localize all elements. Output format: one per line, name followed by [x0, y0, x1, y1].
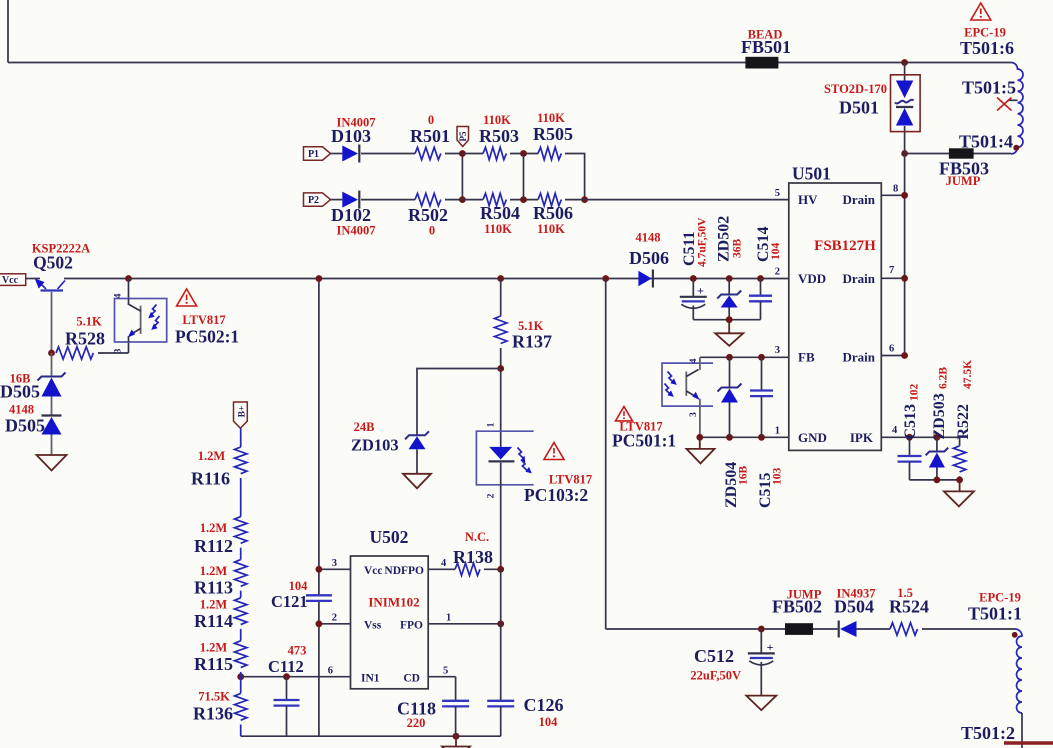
- svg-text:2: 2: [775, 267, 780, 278]
- resistor R506: [538, 193, 561, 205]
- IC U501 FSB127H body: [789, 183, 882, 450]
- svg-text:ZD505: ZD505: [0, 382, 40, 402]
- svg-text:EPC-19: EPC-19: [979, 591, 1021, 605]
- wire R116-R112: [240, 478, 242, 517]
- svg-text:IN1: IN1: [361, 673, 380, 685]
- warning triangle PC501: [616, 407, 633, 421]
- junction rail / R522: [956, 477, 963, 484]
- svg-text:Q502: Q502: [33, 253, 73, 273]
- svg-text:4.7uF,50V: 4.7uF,50V: [697, 217, 709, 267]
- resistor R138 N.C.: [455, 563, 480, 575]
- wire CD-C118: [455, 677, 457, 701]
- diode D505 4148: [42, 414, 62, 416]
- svg-text:Vcc: Vcc: [2, 275, 19, 286]
- wire R114-R115: [240, 629, 242, 641]
- wire pin1 FPO: [428, 623, 501, 625]
- svg-text:1: 1: [775, 426, 780, 437]
- svg-text:D102: D102: [331, 205, 371, 225]
- ground bottom (clipped): [442, 747, 470, 748]
- svg-text:22uF,50V: 22uF,50V: [690, 669, 741, 683]
- wire R136-bottom rail: [240, 725, 242, 737]
- junction GND / C515: [758, 434, 765, 441]
- svg-text:4: 4: [441, 558, 447, 569]
- svg-text:R113: R113: [194, 578, 233, 598]
- PC103 LED: [489, 447, 512, 460]
- diode D506 4148: [638, 271, 651, 286]
- svg-text:R114: R114: [194, 611, 233, 631]
- junction FB / ZD504: [726, 354, 733, 361]
- junction IPK / ZD503: [934, 434, 941, 441]
- wire ground stub bottom: [455, 736, 457, 746]
- svg-text:C121: C121: [271, 592, 308, 611]
- junction group rail / ground: [726, 316, 733, 323]
- svg-text:110K: 110K: [484, 222, 512, 236]
- svg-text:R505: R505: [533, 124, 573, 144]
- svg-text:HV: HV: [798, 192, 818, 207]
- wire VDD group bottom rail: [693, 319, 760, 321]
- PC502 phototransistor: [140, 306, 142, 334]
- zener diode ZD505 16B: [38, 373, 66, 381]
- resistor R114 1.2M: [235, 598, 247, 625]
- svg-text:D103: D103: [331, 126, 371, 146]
- svg-text:1.2M: 1.2M: [200, 564, 228, 578]
- junction rail / ZD503: [934, 477, 941, 484]
- capacitor C112 473: [286, 677, 288, 700]
- resistor R505: [538, 147, 561, 159]
- wire ground stub: [699, 437, 701, 449]
- capacitor C511 4.7uF,50V electrolytic: [692, 279, 694, 297]
- wire bottom rail: [241, 735, 501, 737]
- junction IPK / C513: [906, 434, 913, 441]
- svg-text:R115: R115: [194, 654, 233, 674]
- port Vcc: [0, 274, 26, 286]
- wire to U501 pin5 HV: [585, 199, 789, 201]
- wire PC502 pin3 riser: [128, 342, 130, 353]
- svg-text:R502: R502: [408, 205, 448, 225]
- warning triangle PC103: [544, 443, 564, 460]
- resistor R112 1.2M: [235, 517, 247, 544]
- svg-text:+: +: [697, 284, 704, 298]
- svg-text:103: 103: [772, 468, 784, 486]
- wire R501-node: [445, 153, 462, 155]
- svg-text:4148: 4148: [9, 403, 34, 417]
- svg-text:P1: P1: [308, 149, 319, 160]
- svg-text:Drain: Drain: [843, 192, 876, 207]
- junction R501/R503/P5: [459, 150, 466, 157]
- capacitor C513 102: [909, 437, 911, 456]
- junction top rail / D501: [901, 59, 908, 66]
- wire FB rail: [700, 356, 789, 358]
- wire P2-D102: [331, 199, 343, 201]
- svg-text:T501:2: T501:2: [961, 723, 1015, 743]
- wire GND rail: [700, 436, 789, 438]
- junction feeder / C512: [758, 626, 765, 633]
- svg-text:1.2M: 1.2M: [200, 598, 228, 612]
- svg-text:1.2M: 1.2M: [200, 641, 228, 655]
- wire D102-R502: [361, 199, 415, 201]
- wire R524-T501:1: [922, 628, 1015, 630]
- svg-text:R137: R137: [512, 332, 552, 352]
- capacitor C515 103: [761, 357, 763, 390]
- svg-text:6: 6: [328, 666, 333, 677]
- svg-text:1.2M: 1.2M: [198, 449, 226, 463]
- junction bottom rail / ground: [453, 733, 460, 740]
- wire pin4 NDFPO: [428, 568, 455, 570]
- wire IPK group bottom rail: [910, 479, 960, 481]
- svg-text:ZD502: ZD502: [716, 216, 733, 262]
- capacitor C118 220: [442, 700, 469, 702]
- wire Q502 base down: [51, 292, 53, 353]
- svg-text:R506: R506: [533, 203, 573, 223]
- wire top rail: [8, 62, 1011, 64]
- wire R112-R113: [240, 548, 242, 560]
- svg-text:473: 473: [288, 644, 307, 658]
- PC501 phototransistor: [685, 372, 687, 396]
- svg-text:PC502:1: PC502:1: [175, 327, 239, 347]
- svg-text:0: 0: [428, 113, 434, 127]
- svg-text:24B: 24B: [354, 420, 375, 434]
- svg-text:IN4007: IN4007: [337, 224, 376, 238]
- capacitor C126 104: [487, 700, 514, 702]
- wire ground stub: [959, 480, 961, 492]
- diode D504 IN4937: [838, 621, 840, 638]
- transformer T501 primary winding pins 6-5-4: [1011, 63, 1023, 154]
- svg-text:1.2M: 1.2M: [200, 521, 228, 535]
- svg-text:110K: 110K: [537, 111, 565, 125]
- wire ZD505-D505: [51, 397, 53, 416]
- resistor R522 47.5K: [959, 437, 961, 446]
- warning triangle PC502: [177, 289, 197, 306]
- zener diode ZD103 24B: [405, 431, 429, 439]
- resistor R503: [483, 147, 506, 159]
- optocoupler PC502:1 box: [115, 299, 167, 343]
- junction VDD / FB502 feeder: [602, 275, 609, 282]
- svg-text:PC501:1: PC501:1: [612, 431, 676, 451]
- svg-text:N.C.: N.C.: [465, 530, 489, 544]
- junction VDD riser: [316, 275, 323, 282]
- IC U502 INIM102 body: [351, 556, 429, 689]
- zener diode ZD502 36B: [728, 279, 730, 295]
- svg-text:0: 0: [429, 224, 435, 238]
- wire B+ to R116: [240, 428, 242, 447]
- not-connected X mark on T501:5: [997, 98, 1012, 111]
- svg-text:T501:6: T501:6: [960, 38, 1014, 58]
- svg-text:D506: D506: [629, 248, 669, 268]
- transistor Q502 KSP2222A: [41, 289, 64, 291]
- svg-text:8: 8: [893, 184, 898, 195]
- ferrite bead FB502: [785, 623, 813, 635]
- transformer phase dot pin1: [1012, 632, 1018, 638]
- junction FB503 / drain bus: [901, 150, 908, 157]
- svg-text:3: 3: [332, 558, 337, 569]
- junction VDD / PC502 pin4: [125, 275, 132, 282]
- wire R504-R506: [510, 199, 538, 201]
- ground under C512: [746, 696, 776, 711]
- capacitor C121 104: [306, 594, 332, 596]
- svg-text:R528: R528: [65, 329, 105, 349]
- junction GND / ZD504: [726, 434, 733, 441]
- wire T501:4 to drain bus: [905, 153, 1011, 155]
- resistor R136 71.5K: [235, 693, 247, 720]
- svg-text:D505: D505: [5, 416, 45, 436]
- wire D505-ground: [51, 435, 53, 456]
- svg-text:3: 3: [689, 412, 699, 417]
- wire R528-PC502 pin3: [98, 352, 129, 354]
- junction riser / pin3: [316, 566, 323, 573]
- svg-text:R138: R138: [453, 547, 493, 567]
- svg-text:R503: R503: [479, 126, 519, 146]
- wire to ground stub: [728, 320, 730, 334]
- wire pin5 CD: [428, 676, 455, 678]
- svg-text:T501:5: T501:5: [962, 78, 1016, 98]
- svg-text:104: 104: [770, 243, 782, 261]
- junction pin6 drain bus: [901, 352, 908, 359]
- ground under R522: [944, 491, 974, 506]
- svg-text:B+: B+: [237, 406, 247, 418]
- warning triangle EPC-19: [971, 3, 991, 20]
- wire R137-PC103 LED: [500, 348, 502, 447]
- wire link node2: [523, 154, 525, 200]
- junction riser / pin2: [316, 620, 323, 627]
- resistor R524 1.5: [890, 623, 918, 635]
- ferrite bead FB501: [745, 57, 778, 69]
- junction FPO / riser: [497, 620, 504, 627]
- svg-text:2: 2: [332, 613, 337, 624]
- winding tap T501:5 stub: [1008, 99, 1018, 101]
- ground under ZD103: [403, 474, 431, 489]
- svg-text:104: 104: [539, 715, 559, 729]
- wire riser PC103 down: [500, 569, 502, 701]
- svg-text:4: 4: [892, 425, 898, 436]
- svg-text:C513: C513: [902, 404, 919, 440]
- wire R503-R505: [510, 153, 538, 155]
- ground under D505: [37, 455, 67, 471]
- wire R115-R136: [240, 672, 242, 694]
- wire pin4 IPK: [881, 436, 959, 438]
- svg-text:R501: R501: [410, 126, 450, 146]
- wire ZD103-ground: [416, 449, 418, 474]
- svg-text:FB502: FB502: [772, 597, 822, 617]
- svg-text:FPO: FPO: [400, 620, 423, 632]
- svg-text:Drain: Drain: [843, 350, 876, 365]
- svg-text:VDD: VDD: [798, 271, 826, 286]
- ferrite bead FB503: [949, 148, 974, 158]
- svg-text:C112: C112: [268, 657, 304, 676]
- wire pin7 drain stub: [881, 277, 904, 279]
- wire winding down: [1021, 713, 1023, 748]
- wire pin8 drain stub: [881, 194, 904, 196]
- junction R502/R504: [459, 196, 466, 203]
- svg-text:5: 5: [443, 666, 448, 677]
- junction pin8 drain bus: [901, 192, 908, 199]
- svg-text:Vcc: Vcc: [364, 565, 383, 577]
- svg-text:ZD103: ZD103: [351, 436, 399, 455]
- wire PC501 pin4 riser: [699, 357, 701, 370]
- wire riser VDD to C121: [318, 279, 320, 596]
- wire PC103 pin2 down: [500, 463, 502, 570]
- svg-text:6: 6: [889, 344, 894, 355]
- junction VDD / C514: [757, 275, 764, 282]
- junction row2 output: [581, 196, 588, 203]
- resistor R113 1.2M: [235, 560, 247, 587]
- svg-text:FB: FB: [798, 350, 815, 365]
- svg-text:GND: GND: [798, 430, 827, 445]
- wire P1-D103: [331, 153, 343, 155]
- svg-text:C511: C511: [681, 231, 698, 266]
- svg-text:NDFPO: NDFPO: [384, 565, 424, 577]
- svg-text:220: 220: [407, 716, 426, 730]
- svg-text:FB501: FB501: [741, 37, 791, 57]
- wire R505 corner down: [565, 154, 585, 200]
- TVS diode D501 STO2D-170: [896, 81, 913, 99]
- wire pin3 Vcc: [319, 568, 351, 570]
- svg-text:R504: R504: [480, 203, 520, 223]
- svg-text:INIM102: INIM102: [368, 595, 419, 610]
- junction VDD / ZD502: [726, 275, 733, 282]
- PC502 light arrows: [150, 305, 157, 317]
- svg-text:Drain: Drain: [843, 271, 876, 286]
- junction R503/R505 link: [520, 150, 527, 157]
- wire R138-riser: [484, 568, 501, 570]
- wire link node1: [461, 154, 463, 200]
- port P1: [304, 147, 331, 160]
- wire to ZD103: [417, 369, 501, 436]
- svg-text:1: 1: [446, 613, 451, 624]
- wire pin6 drain stub: [881, 355, 904, 357]
- svg-text:P2: P2: [308, 195, 319, 206]
- svg-text:T501:1: T501:1: [968, 604, 1022, 624]
- svg-text:JUMP: JUMP: [946, 174, 981, 188]
- svg-text:71.5K: 71.5K: [198, 690, 230, 704]
- svg-text:FSB127H: FSB127H: [814, 238, 876, 254]
- svg-text:3: 3: [114, 348, 124, 353]
- wire drain bus vertical: [904, 63, 906, 81]
- svg-text:16B: 16B: [738, 466, 750, 486]
- wire D504-R524: [857, 628, 891, 630]
- resistor R137: [495, 316, 507, 344]
- junction pin7 drain bus: [901, 275, 908, 282]
- svg-text:7: 7: [889, 265, 894, 276]
- svg-text:4: 4: [689, 358, 699, 363]
- wire node-R503: [462, 153, 483, 155]
- wire Vcc to Q502: [26, 278, 40, 280]
- junction R528 / D505: [48, 350, 55, 357]
- wire C121 to bottom rail: [318, 601, 320, 736]
- svg-text:1: 1: [487, 422, 497, 427]
- wire frame vertical: [7, 0, 9, 63]
- optocoupler PC501:1 box: [662, 363, 713, 406]
- resistor R528: [56, 347, 93, 359]
- svg-text:C126: C126: [524, 695, 564, 715]
- wire VDD-R137: [500, 279, 502, 317]
- svg-text:R522: R522: [955, 404, 972, 440]
- wire R506-node: [565, 199, 585, 201]
- wire IN1: [241, 676, 351, 678]
- resistor R116 1.2M: [235, 447, 247, 474]
- svg-text:CD: CD: [403, 673, 420, 685]
- wire PC501 pin3 riser: [699, 399, 701, 438]
- PC103 light arrows out: [518, 448, 525, 460]
- capacitor C514 104: [760, 279, 762, 296]
- svg-text:3: 3: [775, 345, 780, 356]
- svg-text:R112: R112: [194, 536, 233, 556]
- diode D103 IN4007: [342, 146, 358, 162]
- svg-text:D501: D501: [839, 98, 879, 118]
- wire pin2 Vss: [319, 623, 351, 625]
- svg-text:R136: R136: [193, 704, 233, 724]
- ground under ZD502 group: [715, 333, 743, 346]
- svg-text:R524: R524: [889, 597, 929, 617]
- svg-text:6.2B: 6.2B: [938, 367, 950, 389]
- wire feeder horizontal: [606, 628, 838, 630]
- transformer phase dot pin4: [1013, 145, 1019, 151]
- junction FB / C515: [758, 354, 765, 361]
- wire VDD rail: [64, 278, 789, 280]
- svg-text:4148: 4148: [636, 231, 661, 245]
- resistor R501: [415, 147, 441, 159]
- junction R115/R136/IN1: [237, 673, 244, 680]
- svg-text:PC103:2: PC103:2: [524, 485, 588, 505]
- resistor R504: [483, 193, 506, 205]
- transformer T501 winding pins 1-2: [1015, 629, 1022, 713]
- resistor R502: [415, 193, 441, 205]
- svg-text:STO2D-170: STO2D-170: [824, 82, 887, 96]
- svg-text:5.1K: 5.1K: [76, 315, 102, 329]
- ground under GND rail: [687, 449, 715, 464]
- svg-text:2: 2: [487, 493, 497, 498]
- svg-text:LTV817: LTV817: [182, 313, 225, 327]
- junction R504/R506 link: [520, 196, 527, 203]
- wire R113-R114: [240, 591, 242, 598]
- svg-text:4: 4: [114, 293, 124, 298]
- svg-text:U502: U502: [370, 527, 409, 547]
- junction GND rail / ground: [696, 434, 703, 441]
- zener diode ZD504 16B: [729, 357, 731, 387]
- svg-text:C512: C512: [694, 646, 734, 666]
- svg-text:ZD503: ZD503: [931, 393, 948, 439]
- svg-text:102: 102: [909, 384, 921, 402]
- svg-text:U501: U501: [792, 164, 831, 184]
- red frame line bottom right: [1004, 741, 1053, 744]
- diode D102 IN4007: [342, 192, 358, 208]
- wire junction-ZD505: [51, 353, 53, 376]
- svg-text:36B: 36B: [732, 239, 744, 259]
- svg-text:110K: 110K: [537, 222, 565, 236]
- port P5 flag: [457, 127, 469, 147]
- svg-text:IPK: IPK: [850, 430, 874, 445]
- wire feeder vertical: [605, 279, 607, 630]
- port P2: [304, 193, 331, 206]
- svg-text:110K: 110K: [483, 113, 511, 127]
- svg-text:D504: D504: [834, 597, 874, 617]
- wire PC502 pin4 riser: [128, 279, 130, 299]
- svg-text:5: 5: [775, 188, 780, 199]
- junction VDD / C511: [690, 275, 697, 282]
- wire node-R504: [462, 199, 483, 201]
- capacitor C512 22uF,50V electrolytic: [760, 629, 762, 653]
- zener diode ZD503 6.2B: [936, 437, 938, 451]
- resistor R115 1.2M: [235, 641, 247, 668]
- svg-text:P5: P5: [458, 131, 468, 141]
- junction R138 / riser: [497, 566, 504, 573]
- svg-text:R116: R116: [191, 469, 230, 489]
- svg-text:47.5K: 47.5K: [962, 360, 974, 389]
- PC501 light arrows: [668, 372, 675, 384]
- svg-text:+: +: [767, 640, 774, 654]
- junction IN1 / C112: [283, 673, 290, 680]
- junction VDD / R137: [497, 275, 504, 282]
- optocoupler PC103:2 box: [476, 431, 533, 485]
